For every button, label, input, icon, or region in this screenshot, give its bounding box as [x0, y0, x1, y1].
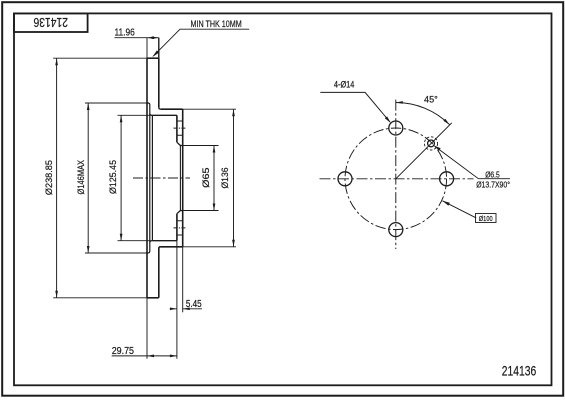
bolt hole axis lower: [174, 227, 187, 229]
dimension 5.45 line: [170, 308, 202, 310]
hat surface D136 upper: [161, 108, 183, 110]
bolt hole bottom: [389, 223, 403, 237]
svg-text:11.96: 11.96: [115, 27, 136, 38]
countersink D13.7 dashed: [424, 137, 437, 150]
bolt hole in flange upper: [177, 121, 183, 135]
svg-text:214136: 214136: [502, 362, 537, 378]
svg-text:Ø125.45: Ø125.45: [108, 160, 119, 194]
svg-text:Ø65: Ø65: [201, 168, 212, 188]
dimension 29.75 extension: [176, 241, 178, 359]
svg-text:214136: 214136: [34, 15, 69, 30]
bore chamfer upper: [177, 142, 181, 145]
bolt hole top: [389, 121, 403, 135]
bolt hole left: [338, 172, 352, 186]
bolt hole axis upper: [174, 127, 187, 129]
svg-text:Ø136: Ø136: [220, 168, 231, 189]
svg-text:5.45: 5.45: [186, 299, 202, 310]
rotor inboard face lower: [159, 247, 161, 298]
svg-text:MIN THK 10MM: MIN THK 10MM: [191, 19, 242, 29]
D125.45 edge lower: [118, 240, 153, 242]
rotor outboard face x=147 (with extension ends): [146, 38, 148, 359]
leader 4-D14: [320, 92, 390, 122]
title block box: [14, 13, 88, 32]
bore surface D65 upper: [180, 145, 182, 147]
flange outboard face lower: [176, 214, 178, 241]
flange outboard face upper: [176, 115, 178, 142]
step edge x=149.8: [149, 105, 151, 251]
hat surface D136 lower: [161, 246, 183, 248]
D125.45 edge upper: [118, 114, 153, 116]
svg-text:Ø100: Ø100: [479, 214, 493, 223]
dimension D125.45 line: [120, 115, 122, 240]
leader D100: [442, 201, 476, 218]
step edge x=152.4: [151, 115, 153, 240]
leader MIN THK: [154, 29, 250, 56]
dimension D146MAX line: [87, 103, 89, 253]
dimension D136 line: [233, 109, 235, 247]
step fillet lower: [150, 241, 153, 243]
hub inboard face x=182.7: [182, 109, 184, 247]
D136 extension upper: [183, 108, 236, 110]
rotor top face: [147, 57, 159, 59]
svg-text:4-Ø14: 4-Ø14: [334, 80, 355, 90]
45 degree radial line: [396, 123, 452, 179]
svg-text:Ø6.5: Ø6.5: [485, 169, 500, 179]
bore chamfer edge x=180.4: [179, 146, 181, 211]
D100 box: [476, 214, 497, 223]
bore chamfer lower: [177, 211, 181, 214]
bolt circle D100: [345, 128, 447, 230]
svg-text:Ø238.85: Ø238.85: [44, 160, 55, 195]
dimension D238.85 extension bottom: [53, 297, 147, 299]
45 degree arc: [396, 103, 450, 125]
step fillet upper: [150, 114, 153, 116]
dimension D238.85 extension top: [53, 57, 147, 59]
locating hole D6.5: [428, 140, 435, 147]
D146 edge upper: [85, 102, 146, 104]
dimension D65 line: [213, 146, 215, 211]
centerline of section view: [133, 177, 190, 179]
dimension 5.45 extension right: [182, 247, 184, 312]
bore surface D65 lower: [180, 210, 182, 212]
dimension 29.75 line: [112, 355, 177, 357]
D136 extension lower: [183, 246, 236, 248]
svg-text:Ø146MAX: Ø146MAX: [76, 159, 87, 194]
dimension D238.85 line: [56, 58, 58, 298]
dimension 11.96 line: [115, 37, 159, 39]
right view horizontal centerline: [320, 178, 474, 180]
svg-text:Ø13.7X90°: Ø13.7X90°: [476, 179, 510, 189]
right view vertical centerline: [395, 100, 397, 249]
D65 extension lower: [183, 210, 219, 212]
rotor bottom face: [147, 297, 159, 299]
rotor inboard face upper: [159, 38, 161, 110]
bolt hole right: [440, 172, 454, 186]
leader D6.5: [439, 149, 510, 178]
svg-text:29.75: 29.75: [112, 346, 135, 357]
svg-text:45°: 45°: [424, 95, 438, 106]
D65 extension upper: [183, 145, 219, 147]
D146 edge lower: [85, 252, 146, 254]
bolt hole in flange lower: [177, 221, 183, 235]
